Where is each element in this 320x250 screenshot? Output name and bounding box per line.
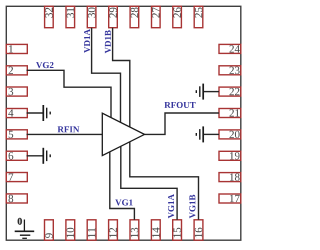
- net label VD1A: [84, 29, 90, 53]
- pin 8 box: [6, 194, 27, 203]
- pin 4 box: [6, 109, 27, 118]
- pin 15 box: [173, 220, 182, 240]
- pin 26 box: [173, 6, 182, 27]
- pin 18 box: [219, 173, 241, 182]
- pin 12 number: [109, 228, 116, 237]
- pin 6 number: [9, 152, 14, 159]
- net label RFOUT: [164, 102, 195, 108]
- pin 8 number: [9, 195, 14, 202]
- wire pin 4 to ground: [27, 112, 43, 114]
- op-amp amplifier triangle U1: [102, 113, 144, 155]
- wire net VG2: pin 2 to amplifier top edge: [27, 70, 112, 117]
- net label VG1: [115, 199, 132, 205]
- pin 23 number: [230, 67, 240, 74]
- wire net VG1B: amplifier bottom edge to pin 16: [130, 142, 199, 220]
- pin 25 number: [195, 8, 202, 18]
- pin 2 number: [9, 67, 13, 74]
- pin 27 number: [152, 7, 159, 17]
- wire net VD1B: pin 29 to amplifier top edge: [113, 28, 130, 127]
- ground symbol at pin 20: [196, 126, 203, 142]
- pin 9 number: [45, 233, 52, 238]
- pin 22 number: [230, 88, 240, 95]
- pin 29 number: [109, 8, 116, 18]
- pin 11 box: [87, 220, 96, 240]
- wire net RFOUT: amplifier output to pin 21: [145, 113, 220, 134]
- pin 25 box: [194, 6, 203, 27]
- wire pin 22 to ground: [204, 91, 219, 93]
- pin 14 number: [152, 228, 159, 238]
- pin 11 number: [88, 228, 95, 237]
- pin 7 number: [9, 174, 14, 181]
- wire pin 6 to ground: [27, 155, 43, 157]
- pin 10 box: [66, 220, 75, 240]
- pin 7 box: [6, 173, 27, 182]
- pin 30 box: [87, 6, 96, 27]
- wire net VG1A: amplifier bottom edge to pin 15: [121, 146, 177, 220]
- ground 0 label: [18, 218, 22, 225]
- pin 31 number: [67, 8, 74, 18]
- net label VG1B: [189, 195, 195, 219]
- pin 23 box: [219, 66, 241, 75]
- net label VG2: [36, 62, 54, 68]
- pin 5 box: [6, 130, 27, 139]
- pin 16 box: [194, 220, 203, 240]
- pin 15 number: [173, 228, 180, 238]
- ground symbol at pin 22: [196, 84, 203, 100]
- ground symbol at pin 4: [43, 105, 50, 121]
- pin 32 box: [45, 6, 54, 27]
- pin 2 box: [6, 66, 27, 75]
- pin 24 box: [219, 44, 241, 53]
- pin 19 box: [219, 151, 241, 160]
- net label VG1A: [168, 194, 174, 218]
- pin 13 box: [130, 220, 139, 240]
- ground symbol 0 at bottom left: [15, 220, 35, 239]
- pin 3 box: [6, 87, 27, 96]
- pin 10 number: [67, 228, 74, 238]
- pin 21 box: [219, 109, 241, 118]
- pin 29 box: [109, 6, 118, 27]
- pin 6 box: [6, 151, 27, 160]
- pin 16 number: [195, 228, 202, 238]
- pin 17 number: [230, 195, 240, 202]
- pin 5 number: [9, 131, 14, 138]
- pin 13 number: [131, 228, 138, 238]
- pin 30 number: [88, 8, 95, 18]
- pin 32 number: [45, 8, 52, 18]
- pin 26 number: [173, 7, 180, 17]
- pin 31 box: [66, 6, 75, 27]
- net label RFIN: [58, 126, 80, 132]
- pin 9 box: [45, 220, 54, 240]
- pin 27 box: [152, 6, 161, 27]
- pin 28 number: [131, 8, 138, 18]
- outer package body border: [6, 6, 241, 240]
- wire pin 20 to ground: [204, 133, 219, 135]
- net label VD1B: [105, 30, 111, 53]
- pin 22 box: [219, 87, 241, 96]
- pin 28 box: [130, 6, 139, 27]
- pin 1 number: [9, 45, 13, 52]
- pin 20 box: [219, 130, 241, 139]
- pin 18 number: [230, 173, 240, 180]
- pin 19 number: [230, 152, 240, 159]
- pin 4 number: [8, 109, 13, 116]
- pin 1 box: [6, 44, 27, 53]
- pin 3 number: [9, 88, 14, 95]
- wire net VD1A: pin 30 to amplifier top edge: [92, 28, 121, 123]
- pin 14 box: [151, 220, 160, 240]
- wire net VG1: amplifier bottom edge to pin 13: [110, 152, 135, 220]
- ground symbol at pin 6: [43, 148, 50, 164]
- pin 24 number: [230, 45, 240, 52]
- pin 12 box: [109, 220, 118, 240]
- pin 17 box: [219, 194, 241, 203]
- pin 21 number: [230, 109, 240, 116]
- pin 20 number: [230, 131, 240, 138]
- wire net RFIN: pin 5 to amplifier input: [27, 133, 103, 135]
